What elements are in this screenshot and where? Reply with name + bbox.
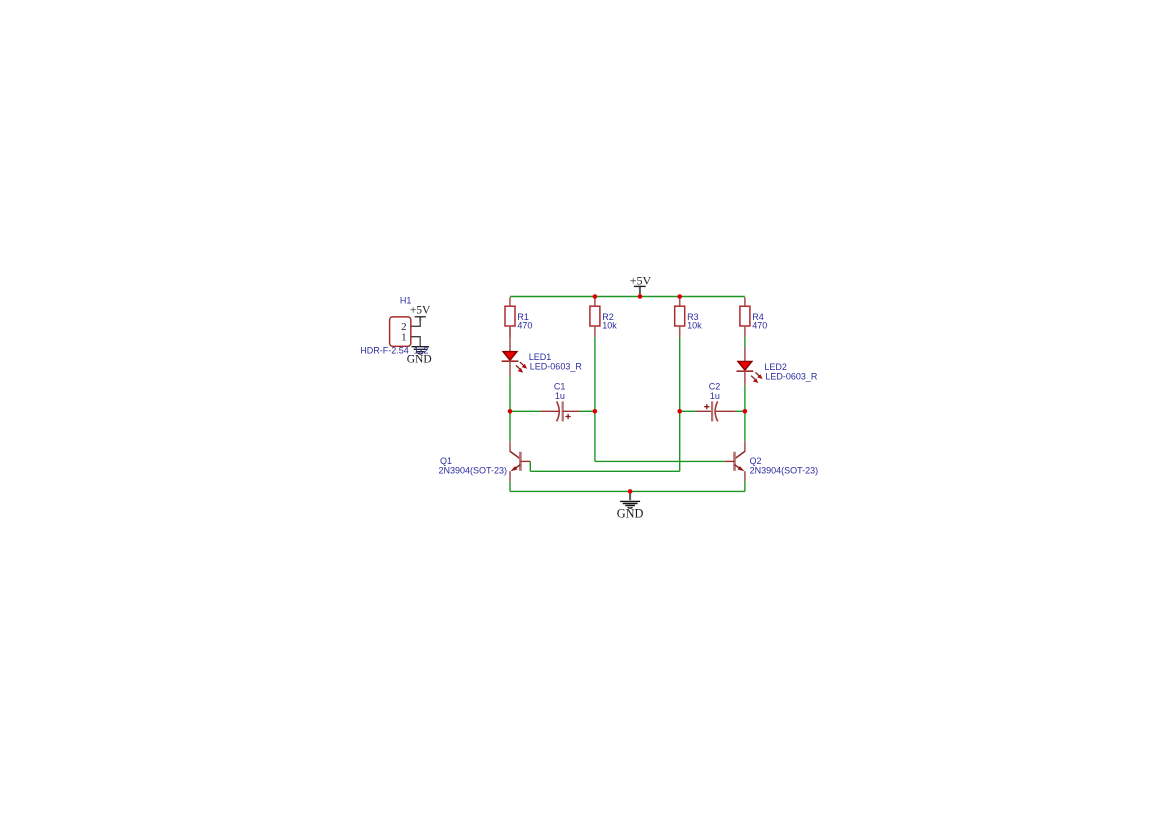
wire R4 to LED2 [744, 337, 746, 347]
wire LED2 cathode to Q2 collector [744, 386, 746, 442]
junction on top rail at R2 [593, 294, 598, 299]
svg-text:LED-0603_R: LED-0603_R [530, 361, 583, 371]
wire R2 bottom to Q2 base row [594, 337, 596, 462]
wire left branch LED1 cathode to Q1 collector [509, 376, 511, 441]
junction C1 right node [593, 409, 598, 414]
junction bottom rail at GND [628, 489, 633, 494]
junction C1 left node [508, 409, 513, 414]
resistor R1 [505, 297, 515, 337]
wire R3 bottom to Q1 base row [679, 337, 681, 471]
pin 1 (H1) [401, 332, 420, 347]
svg-text:LED-0603_R: LED-0603_R [765, 371, 818, 381]
capacitor C2 [695, 401, 735, 421]
ground flag GND (H1 pin 1) [407, 347, 432, 366]
wire C1 left [510, 410, 541, 412]
svg-text:H1: H1 [400, 296, 412, 306]
svg-text:1: 1 [401, 332, 407, 344]
capacitor C1 [541, 401, 580, 421]
svg-text:HDR-F-2.54_1x2: HDR-F-2.54_1x2 [360, 346, 428, 356]
resistor R2 [590, 297, 600, 337]
junction C2 left node [677, 409, 682, 414]
power flag +5V (top rail) [630, 273, 652, 295]
connector H1 [390, 317, 411, 346]
ground flag GND (bottom rail) [617, 491, 644, 520]
svg-text:10k: 10k [687, 321, 702, 331]
wire Q1 base row horizontal [530, 470, 679, 472]
svg-text:GND: GND [617, 507, 644, 521]
power flag +5V (H1 pin 2) [410, 304, 431, 321]
junction C2 right node [743, 409, 748, 414]
svg-text:C1: C1 [554, 381, 566, 391]
svg-text:+5V: +5V [410, 304, 431, 316]
svg-text:470: 470 [517, 321, 532, 331]
svg-text:2N3904(SOT-23): 2N3904(SOT-23) [439, 465, 508, 475]
junction on top rail at +5V [638, 294, 643, 299]
svg-text:2N3904(SOT-23): 2N3904(SOT-23) [750, 465, 819, 475]
svg-text:10k: 10k [602, 321, 617, 331]
LED LED2 [737, 347, 763, 386]
svg-text:470: 470 [752, 321, 767, 331]
LED LED1 [502, 326, 527, 376]
resistor R4 [740, 297, 750, 337]
wire C2 right [736, 410, 745, 412]
svg-text:1u: 1u [555, 391, 565, 401]
svg-text:+5V: +5V [630, 273, 652, 287]
resistor R3 [675, 297, 685, 337]
wire VCC top rail [510, 296, 745, 298]
wire C2 left [680, 410, 696, 412]
wire Q2 base row horizontal [595, 460, 725, 462]
svg-text:1u: 1u [710, 391, 720, 401]
wire Q1 emitter down [509, 481, 511, 491]
svg-text:C2: C2 [709, 381, 721, 391]
transistor Q2 [725, 441, 745, 481]
wire GND bottom rail [510, 490, 745, 492]
wire Q1 base jog [529, 461, 531, 471]
wire C1 right [580, 410, 595, 412]
transistor Q1 [510, 441, 530, 481]
wire Q2 emitter down [744, 481, 746, 491]
junction on top rail at R3 [677, 294, 682, 299]
pin 2 (H1) [401, 317, 420, 333]
